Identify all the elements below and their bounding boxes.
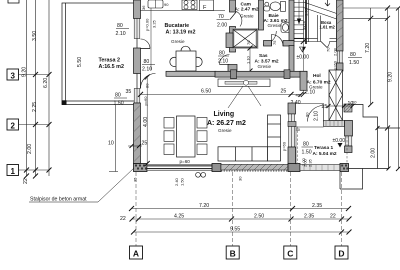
svg-text:1.61 m2: 1.61 m2	[320, 25, 336, 30]
stairs treads	[294, 3, 304, 39]
svg-text:90: 90	[164, 2, 169, 7]
svg-text:p=0.00: p=0.00	[145, 18, 150, 31]
svg-text:70: 70	[326, 47, 331, 52]
baie south wall with door	[264, 41, 272, 47]
svg-text:2.00: 2.00	[217, 23, 227, 29]
svg-text:4.25: 4.25	[174, 214, 184, 220]
wall stub left of entrance	[288, 122, 296, 127]
svg-text:A: A	[133, 249, 139, 259]
svg-text:Gresie: Gresie	[240, 14, 254, 19]
svg-text:30: 30	[238, 176, 243, 181]
svg-text:9.20: 9.20	[22, 67, 28, 77]
svg-text:9x24: 9x24	[302, 21, 307, 30]
grid bubble 2	[7, 119, 19, 131]
svg-text:B: B	[230, 249, 236, 259]
dim 35 / 80 / 1.50 lower left	[114, 89, 132, 107]
dim line 3.61 vertical	[302, 42, 304, 95]
grid bubble A	[130, 246, 143, 259]
level marker +-0.00 terasa1	[333, 138, 346, 148]
svg-text:1.50: 1.50	[180, 177, 185, 186]
dim 80/2.10 at terasa window	[116, 23, 130, 37]
terasa1 north wall band	[324, 121, 345, 127]
svg-text:6.50: 6.50	[201, 89, 211, 95]
svg-text:2.50: 2.50	[254, 214, 264, 220]
grid bubble B	[226, 246, 239, 259]
svg-text:2.35: 2.35	[308, 158, 313, 167]
svg-text:80: 80	[350, 52, 356, 58]
svg-text:35: 35	[133, 177, 138, 182]
hol floor edge line	[296, 103, 325, 105]
svg-text:70: 70	[246, 40, 251, 45]
svg-text:Terasa 2: Terasa 2	[99, 58, 120, 64]
svg-text:2.08: 2.08	[333, 47, 338, 56]
corner hatch block right of glazing	[344, 104, 352, 112]
window in left wall (80/2.10)	[134, 19, 140, 39]
svg-text:2.25: 2.25	[32, 102, 38, 112]
dim 2.00 right steps	[371, 126, 391, 171]
svg-text:30: 30	[296, 127, 301, 132]
svg-text:A: 2.47 m2: A: 2.47 m2	[235, 7, 259, 13]
dining chairs left	[164, 118, 174, 155]
entrance door leaf and arc	[308, 106, 324, 122]
baie pedestal sink	[264, 2, 270, 11]
stair bold cut line	[305, 0, 307, 44]
right dim ticks	[368, 6, 400, 172]
svg-text:9.55: 9.55	[230, 227, 240, 233]
svg-text:10: 10	[108, 141, 114, 147]
window in right wall 80/1.50	[337, 51, 342, 63]
svg-text:1.50: 1.50	[302, 150, 312, 156]
svg-text:A:16.5 m2: A:16.5 m2	[99, 64, 124, 70]
svg-text:80: 80	[115, 93, 121, 99]
svg-text:2: 2	[10, 122, 15, 131]
svg-text:80: 80	[219, 51, 225, 57]
dim 80/1.50 right side	[348, 52, 362, 66]
dim line 6.50 / 25	[138, 89, 304, 97]
door kitchen-sas leaf and arc	[220, 64, 230, 66]
svg-text:2.35: 2.35	[312, 203, 322, 209]
svg-text:80: 80	[303, 142, 309, 148]
dashed curb terasa1	[298, 127, 348, 165]
svg-text:22: 22	[330, 214, 336, 220]
shaft with X brace	[233, 30, 257, 48]
leader lines to niche	[228, 86, 243, 108]
dim 80/2.10 kitchen-sas	[218, 51, 229, 65]
svg-text:6.20: 6.20	[43, 78, 49, 88]
boxa outline	[318, 15, 337, 42]
level marker +-0.00 (hall)	[297, 47, 310, 61]
svg-text:±0.00: ±0.00	[297, 55, 310, 61]
svg-text:C: C	[287, 249, 293, 259]
svg-text:36: 36	[141, 5, 146, 10]
svg-text:25: 25	[281, 89, 287, 95]
kitchen top counter	[141, 0, 226, 11]
door terasa->kitchen arc	[141, 39, 151, 49]
svg-text:3: 3	[10, 72, 15, 81]
stair direction arrow top right	[325, 0, 330, 6]
dim 25 / 10 above terasa1 wall	[322, 101, 355, 110]
grid bubble C	[284, 246, 297, 259]
svg-text:Stalpisor de beton armat: Stalpisor de beton armat	[30, 197, 87, 203]
svg-text:p=60: p=60	[333, 60, 338, 70]
svg-text:4.00: 4.00	[143, 117, 149, 127]
dining table	[177, 116, 196, 157]
Terasa 2 deck outline	[62, 3, 137, 105]
dining chairs right	[197, 118, 207, 155]
svg-text:1.10: 1.10	[246, 55, 251, 64]
svg-text:10: 10	[352, 100, 357, 105]
dim 10 / 25 at SW corner	[108, 141, 147, 149]
window band bottom left	[147, 164, 212, 170]
terasa1 floor outline	[296, 127, 324, 165]
kitchen sink	[148, 0, 163, 8]
hatched wall band behind sofa	[221, 164, 288, 171]
post SE of living	[288, 164, 300, 172]
svg-text:Gresie: Gresie	[258, 64, 272, 69]
door baie->sas arc	[272, 35, 284, 47]
svg-text:75: 75	[272, 40, 277, 45]
axis connector y=170	[19, 169, 50, 171]
svg-text:25: 25	[142, 141, 148, 147]
svg-text:Gresie: Gresie	[171, 39, 185, 44]
svg-text:22: 22	[23, 178, 29, 184]
small circles below bottom wall	[196, 172, 206, 177]
svg-text:Hol: Hol	[313, 73, 321, 79]
svg-text:9.20: 9.20	[388, 72, 394, 82]
svg-text:2.35: 2.35	[304, 214, 314, 220]
svg-text:80: 80	[144, 59, 150, 65]
baie washbasin lower	[281, 23, 290, 33]
svg-text:1.90: 1.90	[304, 7, 309, 16]
grid bubble 1	[7, 165, 19, 177]
axis connector y=74	[19, 74, 50, 76]
dim 80/1.50 terasa1	[302, 142, 314, 156]
post kitchen/sas wall bottom	[228, 65, 237, 72]
svg-text:Terasa 1: Terasa 1	[314, 145, 333, 151]
grid bubble 3	[7, 69, 19, 81]
svg-text:A: 5.04 m2: A: 5.04 m2	[313, 151, 337, 157]
svg-text:Sas: Sas	[259, 53, 268, 59]
stair walk line with arrow	[298, 0, 300, 24]
svg-text:2.10: 2.10	[142, 67, 152, 73]
post mid	[212, 164, 221, 172]
post left of shaft	[226, 33, 233, 48]
svg-text:Living: Living	[214, 111, 235, 118]
right dimension lines	[343, 8, 399, 169]
entry glazing with X	[329, 70, 343, 121]
hatch on lower left wall	[134, 105, 141, 162]
corner post SE	[340, 164, 349, 172]
svg-text:2.10: 2.10	[218, 59, 228, 65]
svg-text:p=60: p=60	[180, 159, 191, 164]
svg-text:p=60: p=60	[282, 141, 287, 151]
fridge F	[200, 0, 214, 11]
svg-text:Bucatarie: Bucatarie	[165, 23, 190, 29]
svg-text:3.50: 3.50	[32, 31, 38, 41]
corner post SW	[134, 164, 148, 172]
corridor south wall double line	[294, 39, 321, 42]
bottom dimension row 3	[131, 227, 352, 235]
left exterior wall of house	[134, 0, 156, 164]
wall Cam/Baie	[259, 0, 264, 30]
svg-text:D: D	[338, 249, 344, 259]
right outer ground contour	[340, 105, 400, 190]
svg-text:80: 80	[117, 23, 123, 29]
stair break diagonals	[304, 2, 342, 15]
boxa door leaf and arc	[321, 42, 327, 48]
svg-text:1: 1	[10, 167, 15, 176]
door into Cam leaf and arc	[230, 12, 237, 20]
dim ticks left column	[24, 72, 52, 179]
kitchen right wall (to Cam)	[217, 0, 242, 52]
left dimension line mid x=35.5	[35, 0, 37, 176]
stove 4 burners	[182, 0, 197, 10]
window in left wall lower (80/1.50)	[134, 89, 140, 104]
right exterior wall	[337, 0, 344, 71]
niche under wall	[218, 79, 270, 87]
svg-text:1.50: 1.50	[349, 60, 359, 66]
door cam->corridor arc	[263, 31, 276, 45]
bottom dimension row 1	[129, 203, 351, 211]
kitchen dims: rotated p=0.00 / 3.25	[150, 8, 152, 70]
svg-text:A: 13.19 m2: A: 13.19 m2	[166, 30, 196, 36]
svg-text:A: 26.27 m2: A: 26.27 m2	[207, 120, 246, 127]
svg-text:25: 25	[322, 104, 328, 110]
stair rails	[303, 0, 305, 42]
living top wall band	[215, 70, 307, 91]
door terasa->living arc	[141, 74, 156, 89]
ground step line below terasa2	[115, 105, 117, 172]
kitchen table with chairs	[170, 46, 202, 71]
axis connector y=124	[19, 124, 50, 126]
svg-text:Gresie: Gresie	[268, 23, 282, 28]
dim line 4.00 vertical in living	[143, 75, 150, 167]
svg-text:2.00: 2.00	[27, 144, 33, 154]
sas/hol wall	[289, 46, 294, 78]
toilet	[270, 2, 285, 12]
bottom dimension row 2	[120, 214, 352, 223]
svg-text:2.40: 2.40	[174, 177, 179, 186]
wall Baie/stairs	[289, 0, 294, 41]
grid bubble D	[335, 246, 348, 259]
terasa1 south band	[300, 164, 340, 170]
svg-text:7.20: 7.20	[365, 43, 371, 53]
terasa1 NE corner post	[345, 121, 353, 137]
svg-text:35: 35	[126, 89, 132, 95]
grid leaders to bottom bubbles	[136, 172, 342, 246]
svg-text:Gresie: Gresie	[218, 128, 232, 133]
svg-text:1.50: 1.50	[114, 101, 124, 107]
dim 1.10 rotated below shaft	[249, 48, 251, 71]
kitchen counter peninsula	[166, 71, 216, 76]
living/terasa1 east wall	[288, 103, 296, 164]
svg-text:80: 80	[305, 112, 310, 117]
svg-text:2.00: 2.00	[371, 148, 377, 158]
svg-text:2.10: 2.10	[116, 31, 126, 37]
svg-text:3.25: 3.25	[152, 19, 157, 28]
left dimension line inner x=26.5	[26, 0, 28, 176]
svg-text:70: 70	[218, 14, 224, 20]
dim 80/2.10 at terasa door	[142, 59, 155, 73]
sofa L-shape	[218, 115, 281, 161]
svg-text:7.20: 7.20	[199, 203, 209, 209]
left dimension line outer x=49	[48, 0, 50, 176]
bottom exterior wall	[134, 164, 349, 172]
terasa2 SW corner post mark	[62, 100, 67, 105]
terasa1 east window and post	[345, 136, 352, 146]
left grid bubble top (cut off)	[8, 0, 19, 3]
svg-text:5.50: 5.50	[77, 57, 83, 67]
svg-text:22: 22	[120, 216, 126, 222]
svg-text:2.10: 2.10	[314, 111, 320, 121]
column note text	[29, 168, 134, 203]
